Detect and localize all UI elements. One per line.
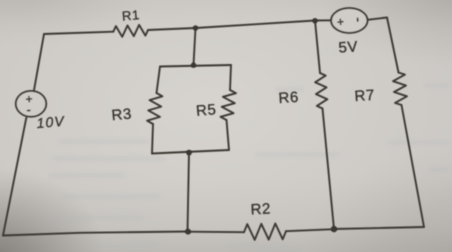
svg-text:R3: R3 xyxy=(111,106,133,125)
resistor R5 xyxy=(221,90,237,120)
wire 5V source to top-right corner xyxy=(368,18,388,20)
junction B1 xyxy=(185,229,191,235)
svg-text:-: - xyxy=(26,102,32,117)
svg-text:R6: R6 xyxy=(278,89,300,107)
resistor R2 xyxy=(244,224,286,240)
resistor R7 xyxy=(393,73,407,106)
voltage source V2 5V xyxy=(331,8,367,33)
wire loop bottom xyxy=(152,150,229,154)
svg-text:R7: R7 xyxy=(354,87,376,105)
wire node B2 to R2 xyxy=(286,229,334,231)
wire top-left corner down to 10V source xyxy=(34,34,44,91)
junction B2 xyxy=(331,226,337,232)
5V source polarity dot xyxy=(357,18,359,22)
junction J2 xyxy=(312,18,317,23)
svg-text:R1: R1 xyxy=(121,7,140,23)
wire loop top xyxy=(160,65,231,67)
wire J2 down to R6 xyxy=(315,21,320,74)
wire 10V source to bottom-left corner xyxy=(3,118,26,236)
wire J2 to 5V source xyxy=(315,19,331,21)
wire right branch down to R7 xyxy=(387,18,399,73)
resistor R6 xyxy=(315,73,327,109)
svg-text:R5: R5 xyxy=(195,101,217,120)
junction J1 xyxy=(193,25,198,30)
svg-text:R2: R2 xyxy=(250,200,271,218)
wire J1 down to loop top node xyxy=(194,28,196,65)
wire R2 to node B1 xyxy=(188,231,244,234)
wire R1 to node J1 xyxy=(148,28,196,30)
svg-text:5V: 5V xyxy=(338,38,359,56)
wire loop right upper xyxy=(230,65,231,90)
wire R7 to bottom-right corner xyxy=(402,105,425,227)
resistor R3 xyxy=(147,93,162,124)
wire loop bottom node down to node B1 xyxy=(188,152,190,231)
wire loop left lower xyxy=(152,124,153,154)
voltage source V1 10V xyxy=(16,91,46,117)
wire node B1 to bottom-left corner xyxy=(3,232,188,236)
wire loop right lower xyxy=(227,120,230,150)
faint show-through text smudges xyxy=(48,83,450,249)
resistor R1 xyxy=(113,25,148,37)
junction loop top xyxy=(191,62,196,67)
wire loop left upper xyxy=(157,67,161,94)
wire bottom-right corner to node B2 xyxy=(334,227,424,229)
wire top-left to R1 xyxy=(44,32,113,34)
svg-text:10V: 10V xyxy=(36,113,66,131)
wire J1 to J2 xyxy=(196,21,316,29)
wire R6 to node B2 xyxy=(323,109,335,230)
svg-text:+: + xyxy=(337,15,346,29)
junction loop bottom xyxy=(186,150,192,156)
